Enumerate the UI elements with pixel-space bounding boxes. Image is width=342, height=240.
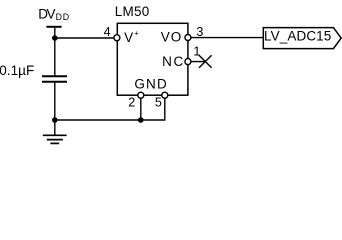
svg-text:2: 2: [128, 96, 135, 110]
svg-text:0.1µF: 0.1µF: [0, 63, 34, 78]
svg-text:1: 1: [193, 44, 200, 58]
svg-text:LV_ADC15: LV_ADC15: [264, 28, 331, 43]
svg-text:GND: GND: [134, 77, 167, 92]
svg-text:5: 5: [155, 96, 162, 110]
svg-text:V: V: [124, 30, 133, 45]
svg-text:3: 3: [196, 25, 203, 39]
svg-text:VO: VO: [161, 30, 182, 45]
svg-text:DD: DD: [56, 12, 70, 22]
svg-text:DV: DV: [38, 7, 55, 22]
svg-text:NC: NC: [162, 54, 183, 69]
svg-text:+: +: [134, 28, 139, 37]
svg-text:LM50: LM50: [115, 4, 150, 19]
svg-text:4: 4: [104, 25, 111, 39]
